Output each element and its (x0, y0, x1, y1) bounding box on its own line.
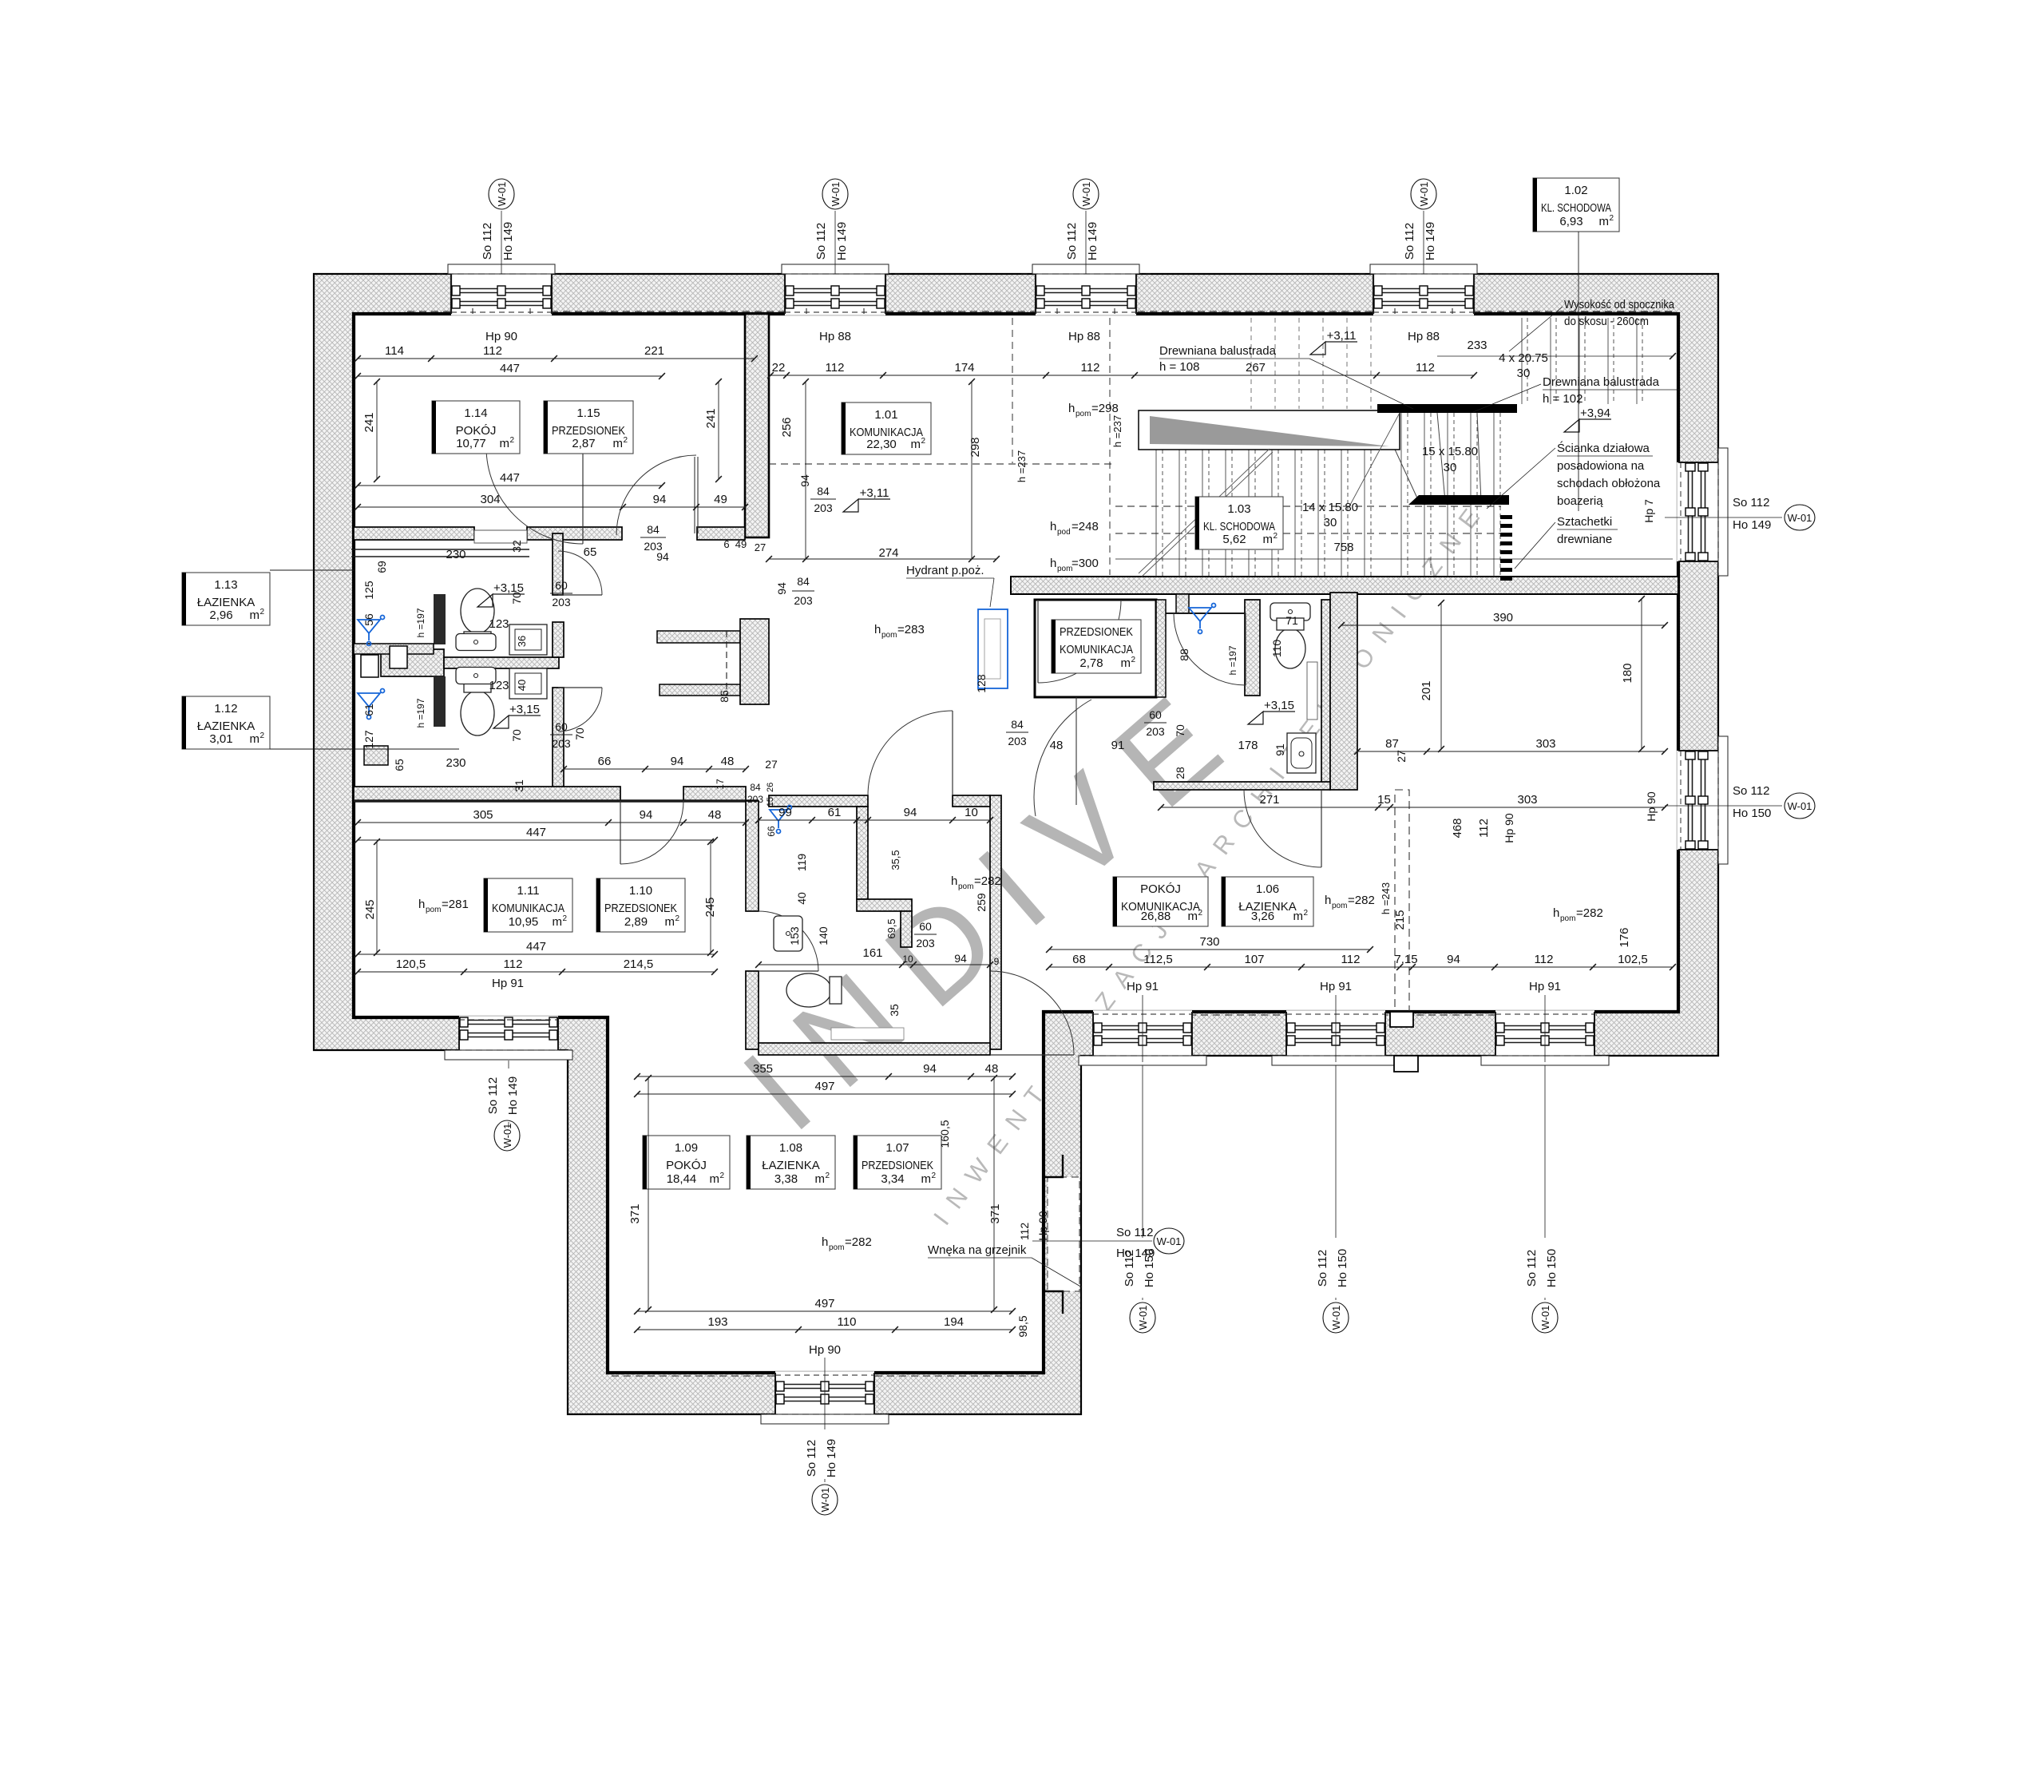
svg-text:=282: =282 (1348, 894, 1375, 907)
svg-text:230: 230 (446, 548, 465, 561)
svg-text:2: 2 (1273, 532, 1277, 541)
wing bottom dims (637, 1310, 1012, 1312)
dashed sill line bottom wall right (1093, 1014, 1597, 1016)
svg-text:447: 447 (526, 826, 546, 839)
svg-text:27: 27 (765, 758, 778, 771)
svg-text:2: 2 (1609, 214, 1614, 223)
central WC top wall right piece (953, 795, 990, 807)
svg-text:1.08: 1.08 (779, 1141, 802, 1155)
level mark corridor 3.11 (843, 499, 858, 512)
svg-text:70: 70 (1174, 724, 1186, 737)
svg-text:2: 2 (1303, 909, 1308, 918)
svg-text:5,62: 5,62 (1222, 533, 1246, 546)
svg-text:pom: pom (1075, 410, 1091, 418)
room box 1.10 PRZEDSIONEK (596, 878, 685, 932)
svg-text:2: 2 (675, 914, 679, 923)
svg-text:2,87: 2,87 (572, 437, 595, 450)
svg-text:221: 221 (644, 344, 664, 358)
svg-text:KOMUNIKACJA: KOMUNIKACJA (1060, 643, 1133, 656)
svg-text:h: h (418, 898, 425, 911)
svg-text:Hp 90: Hp 90 (485, 330, 517, 343)
svg-text:274: 274 (878, 546, 898, 560)
blue symbol bathroom 1.12 (358, 689, 385, 720)
svg-text:h: h (1068, 402, 1075, 415)
toilet central WC (786, 973, 842, 1007)
row 66 94 48 under bathrooms (564, 768, 746, 770)
svg-text:180: 180 (1621, 663, 1634, 683)
svg-text:3,01: 3,01 (209, 732, 232, 746)
door room 1.11 top wall (620, 801, 683, 864)
svg-text:40: 40 (795, 892, 808, 905)
svg-text:+3,15: +3,15 (493, 581, 524, 595)
svg-text:230: 230 (446, 756, 465, 770)
svg-text:pod: pod (1057, 528, 1071, 537)
svg-text:259: 259 (975, 893, 988, 912)
svg-text:Ho 149: Ho 149 (501, 222, 515, 260)
svg-text:65: 65 (393, 759, 406, 771)
svg-text:15 x 15.80: 15 x 15.80 (1422, 445, 1478, 458)
svg-text:193: 193 (707, 1315, 727, 1329)
svg-text:60: 60 (555, 720, 568, 733)
svg-text:70: 70 (573, 728, 586, 740)
svg-text:18,44: 18,44 (667, 1172, 697, 1186)
svg-text:98,5: 98,5 (1016, 1315, 1029, 1337)
svg-text:1.13: 1.13 (214, 578, 237, 592)
room box 1.15 PRZEDSIONEK (544, 401, 633, 454)
door corridor to wing (990, 971, 1074, 1055)
svg-text:So 112: So 112 (814, 223, 828, 260)
svg-text:107: 107 (1244, 953, 1264, 966)
svg-text:30: 30 (1324, 516, 1337, 529)
svg-text:pom: pom (829, 1243, 844, 1252)
svg-text:1.03: 1.03 (1227, 502, 1250, 516)
svg-text:112: 112 (826, 361, 845, 375)
svg-text:71: 71 (1285, 614, 1298, 627)
niche in wall 32 (474, 530, 527, 543)
shower room top wall (1166, 613, 1245, 614)
window bottom wall cx=637 (445, 1016, 572, 1060)
window top wall cx=628 (437, 264, 566, 315)
svg-text:203: 203 (916, 937, 935, 950)
svg-text:2: 2 (1198, 909, 1202, 918)
vertical dim line 298 corridor (971, 382, 972, 559)
svg-text:69,5: 69,5 (885, 918, 897, 938)
svg-text:+3,11: +3,11 (1327, 329, 1357, 343)
middle cluster bottom wall (1154, 782, 1330, 790)
level mark 3.94 (1564, 419, 1579, 432)
svg-text:So 112: So 112 (1733, 496, 1769, 509)
dashed sill line top wall (407, 311, 1674, 312)
level mark 3.11 stairs (1310, 342, 1325, 355)
svg-text:497: 497 (814, 1297, 834, 1310)
svg-text:60: 60 (555, 579, 568, 592)
staircase right flight treads (1522, 318, 1642, 404)
svg-text:94: 94 (653, 493, 667, 506)
svg-text:3,34: 3,34 (881, 1172, 904, 1186)
svg-text:94: 94 (923, 1062, 937, 1076)
window right wall cy=641 (1677, 448, 1728, 576)
window right wall cy=1002 (1677, 736, 1728, 864)
svg-text:86: 86 (718, 690, 731, 703)
svg-text:Ścianka działowa: Ścianka działowa (1557, 441, 1650, 455)
svg-text:1.02: 1.02 (1564, 184, 1587, 197)
svg-text:W-01: W-01 (1788, 800, 1812, 812)
leader line box 1.12 (270, 748, 459, 750)
svg-text:245: 245 (703, 897, 717, 917)
svg-text:203: 203 (552, 737, 571, 750)
svg-text:2: 2 (1131, 656, 1135, 664)
svg-text:3,26: 3,26 (1251, 910, 1274, 923)
svg-text:So 112: So 112 (1316, 1250, 1329, 1287)
room 1.11 right wall upper (746, 801, 759, 911)
svg-text:1.11: 1.11 (517, 884, 539, 898)
leader line box 1.13 (270, 569, 355, 571)
svg-text:6: 6 (723, 538, 729, 550)
svg-text:447: 447 (526, 940, 546, 953)
svg-text:m: m (665, 915, 675, 929)
svg-text:Hp 91: Hp 91 (1127, 980, 1159, 993)
svg-text:h =197: h =197 (415, 608, 426, 637)
svg-text:1.10: 1.10 (629, 884, 652, 898)
svg-text:POKÓJ: POKÓJ (1140, 882, 1181, 896)
svg-text:Ho 149: Ho 149 (1733, 518, 1771, 532)
svg-text:1.06: 1.06 (1256, 882, 1279, 896)
svg-text:153: 153 (788, 926, 801, 946)
blue symbol corridor left (770, 806, 792, 834)
svg-text:1.14: 1.14 (464, 406, 487, 420)
bathtub bathroom right (1287, 733, 1316, 773)
svg-text:447: 447 (500, 471, 520, 485)
room box 1.09 POKOJ (643, 1136, 730, 1189)
toilet bathroom 1.12 (461, 680, 494, 735)
svg-text:176: 176 (1618, 927, 1631, 947)
svg-text:112: 112 (483, 344, 502, 358)
room box 1.01 KOMUNIKACJA (842, 402, 931, 454)
svg-text:94: 94 (775, 582, 788, 595)
svg-text:447: 447 (500, 362, 520, 375)
staircase treads lower flight (1156, 450, 1371, 577)
svg-text:123: 123 (489, 617, 509, 631)
svg-text:pom: pom (1057, 565, 1072, 573)
svg-text:2: 2 (921, 437, 925, 446)
svg-text:35: 35 (888, 1004, 901, 1017)
svg-text:PRZEDSIONEK: PRZEDSIONEK (862, 1159, 933, 1172)
svg-text:70: 70 (510, 729, 523, 742)
svg-text:94: 94 (640, 808, 653, 822)
svg-text:W-01: W-01 (1330, 1306, 1342, 1330)
svg-text:10: 10 (902, 953, 913, 965)
svg-text:94: 94 (798, 474, 811, 487)
room box 1.12 LAZIENKA (182, 696, 270, 749)
svg-text:241: 241 (362, 412, 376, 432)
svg-text:256: 256 (780, 417, 794, 437)
svg-text:61: 61 (362, 704, 375, 716)
hydrant blue box (978, 609, 1008, 688)
svg-text:10,95: 10,95 (509, 915, 539, 929)
bathroom partition walls dark upper (434, 594, 446, 644)
svg-text:140: 140 (817, 926, 830, 946)
svg-text:119: 119 (795, 854, 808, 872)
svg-text:h: h (1050, 557, 1056, 570)
sink bathroom 1.12 (456, 668, 496, 684)
bathroom right wall lower (553, 688, 564, 788)
room box 1.07 PRZEDSIONEK (854, 1136, 941, 1189)
svg-text:=283: =283 (897, 623, 925, 636)
winder tread diagonals (1378, 413, 1419, 502)
toilet bathroom middle right (1275, 618, 1305, 668)
wing bottom window labels (824, 1358, 826, 1429)
svg-text:9: 9 (994, 956, 1000, 967)
wall between room 1.15 and corridor 1.01 (745, 314, 769, 537)
svg-text:112: 112 (1018, 1223, 1031, 1241)
dim row 114 112 221 (358, 358, 755, 359)
svg-text:m: m (500, 437, 510, 450)
svg-text:Hp 88: Hp 88 (1408, 330, 1440, 343)
svg-text:66: 66 (598, 755, 612, 768)
svg-text:KOMUNIKACJA: KOMUNIKACJA (492, 902, 564, 915)
central WC dims (759, 819, 990, 821)
svg-text:66: 66 (766, 826, 777, 837)
svg-text:30: 30 (1517, 367, 1531, 380)
bathroom 1.06 right wall (1321, 600, 1330, 783)
svg-text:15, 26: 15, 26 (766, 783, 775, 807)
svg-text:+3,94: +3,94 (1580, 406, 1610, 420)
dim row 447 top (358, 375, 662, 377)
svg-text:3,38: 3,38 (774, 1172, 798, 1186)
svg-text:h: h (1325, 894, 1331, 907)
svg-text:m: m (911, 438, 921, 451)
corridor dashed boundaries (1109, 318, 1111, 575)
stair upper flight ramp (1139, 410, 1400, 450)
svg-text:POKÓJ: POKÓJ (456, 424, 497, 438)
stair zone dashed lines (1115, 505, 1501, 507)
svg-text:4 x 20.75: 4 x 20.75 (1499, 351, 1548, 365)
leader line box 1.02 (1578, 232, 1579, 511)
svg-text:pom: pom (881, 631, 897, 640)
svg-text:48: 48 (721, 755, 735, 768)
svg-text:22: 22 (772, 361, 786, 375)
svg-text:Hp 91: Hp 91 (1320, 980, 1352, 993)
bathroom divider band 1.13/1.12 (381, 649, 444, 676)
svg-text:Hp 90: Hp 90 (1645, 791, 1658, 822)
svg-text:203: 203 (814, 502, 833, 514)
svg-text:48: 48 (1050, 739, 1064, 752)
svg-text:So 112: So 112 (1116, 1226, 1153, 1239)
thick edge under bathroom wall (354, 799, 759, 803)
svg-text:W-01: W-01 (1157, 1235, 1182, 1247)
svg-text:203: 203 (747, 794, 763, 805)
svg-text:m: m (250, 732, 260, 746)
svg-text:110: 110 (1270, 640, 1283, 658)
door cluster to room 26.88 (1244, 790, 1321, 867)
corridor 274 and hydrant (769, 558, 996, 560)
svg-text:h = 108: h = 108 (1159, 360, 1199, 374)
svg-text:56: 56 (362, 613, 375, 626)
svg-text:174: 174 (954, 361, 974, 375)
room box 1.13 LAZIENKA (182, 573, 270, 625)
svg-text:=281: =281 (442, 898, 469, 911)
bathroom 1.13 top wall (351, 549, 529, 550)
svg-text:112,5: 112,5 (1143, 953, 1172, 966)
svg-text:127: 127 (362, 730, 375, 749)
svg-text:h: h (1050, 520, 1056, 533)
svg-text:91: 91 (1274, 743, 1286, 756)
svg-text:112: 112 (504, 957, 523, 971)
svg-text:112: 112 (1477, 819, 1491, 838)
svg-text:6,93: 6,93 (1559, 215, 1583, 228)
door room 2.78 bottom leaf (1075, 697, 1077, 805)
svg-text:Hp 90: Hp 90 (1503, 813, 1515, 843)
svg-text:h =197: h =197 (1227, 645, 1238, 675)
svg-text:497: 497 (814, 1080, 834, 1093)
door central WC top (868, 711, 953, 795)
svg-text:W-01: W-01 (496, 182, 508, 207)
svg-text:161: 161 (862, 946, 882, 960)
svg-text:So 112: So 112 (1525, 1250, 1539, 1287)
svg-text:31: 31 (513, 779, 525, 792)
svg-text:2,89: 2,89 (624, 915, 648, 929)
svg-text:203: 203 (552, 596, 571, 609)
window top wall cx=1783 (1359, 264, 1488, 315)
svg-text:=248: =248 (1072, 520, 1099, 533)
svg-text:178: 178 (1238, 739, 1258, 752)
svg-text:=282: =282 (1576, 906, 1603, 920)
svg-text:28: 28 (1174, 767, 1186, 779)
svg-text:203: 203 (1146, 725, 1165, 738)
blue symbol shower room (1189, 604, 1216, 634)
balustrade bar lower (1408, 495, 1509, 505)
svg-text:1.12: 1.12 (214, 702, 237, 716)
svg-text:Hydrant p.poż.: Hydrant p.poż. (906, 564, 984, 577)
svg-text:128: 128 (975, 674, 988, 693)
svg-text:pom: pom (958, 882, 973, 891)
svg-text:1.15: 1.15 (576, 406, 600, 420)
svg-text:Wysokość od spocznika: Wysokość od spocznika (1564, 298, 1675, 311)
room 2.78 walls (1035, 600, 1156, 697)
svg-text:120,5: 120,5 (396, 957, 426, 971)
svg-text:m: m (1293, 910, 1304, 923)
svg-text:27: 27 (755, 541, 766, 553)
balustrade bar upper (1377, 404, 1517, 413)
svg-text:94: 94 (904, 806, 917, 819)
svg-text:W-01: W-01 (501, 1124, 513, 1148)
svg-text:=298: =298 (1091, 402, 1119, 415)
svg-text:203: 203 (1008, 735, 1027, 747)
svg-text:PRZEDSIONEK: PRZEDSIONEK (552, 424, 625, 438)
svg-text:m: m (1263, 533, 1274, 546)
svg-text:h =243: h =243 (1380, 882, 1392, 914)
svg-text:305: 305 (473, 808, 493, 822)
sink bathroom 1.13 (456, 634, 496, 651)
svg-text:758: 758 (1333, 541, 1353, 554)
svg-text:110: 110 (838, 1315, 857, 1329)
svg-text:91: 91 (1111, 739, 1125, 752)
dashed partition h243 in big room (1395, 790, 1409, 1012)
window bottom wall cx=1673 (1272, 1010, 1400, 1065)
svg-text:h =197: h =197 (415, 698, 426, 728)
svg-text:201: 201 (1420, 680, 1433, 700)
svg-text:241: 241 (704, 408, 718, 428)
svg-text:PRZEDSIONEK: PRZEDSIONEK (604, 902, 677, 915)
svg-text:94: 94 (1447, 953, 1460, 966)
room box 1.14 POKOJ (432, 401, 520, 454)
svg-text:drewniane: drewniane (1557, 533, 1612, 546)
step jog in bottom band near 7.15 (1390, 1012, 1413, 1027)
fixture 40 bathroom 1.12 (509, 668, 547, 699)
svg-text:Hp 90: Hp 90 (809, 1343, 841, 1357)
room 1.11 dims (358, 822, 746, 823)
door inside room 1.14 (486, 447, 583, 544)
svg-text:2,96: 2,96 (209, 609, 232, 622)
svg-text:35,5: 35,5 (889, 850, 901, 870)
svg-text:Sztachetki: Sztachetki (1557, 515, 1612, 529)
svg-text:88: 88 (1178, 648, 1190, 661)
svg-text:Ho 149: Ho 149 (825, 1439, 838, 1477)
svg-text:112: 112 (1535, 953, 1554, 966)
svg-text:W-01: W-01 (1539, 1306, 1551, 1330)
room box 1.11 KOMUNIKACJA (484, 878, 572, 932)
svg-text:Hp 7: Hp 7 (1642, 499, 1655, 523)
svg-text:So 112: So 112 (486, 1077, 500, 1114)
svg-text:m: m (613, 437, 624, 450)
svg-text:=300: =300 (1072, 557, 1099, 570)
svg-text:99: 99 (778, 806, 792, 819)
room box 1.02 KL SCHODOWA (1533, 178, 1619, 232)
stair flight direction lines (1139, 449, 1270, 573)
svg-text:203: 203 (794, 594, 813, 607)
svg-text:2: 2 (562, 914, 567, 923)
right room dims (1341, 624, 1665, 626)
svg-text:48: 48 (708, 808, 722, 822)
svg-text:102,5: 102,5 (1618, 953, 1648, 966)
svg-text:233: 233 (1467, 339, 1487, 352)
room box POKOJ KOMUNIKACJA 26.88 (1113, 877, 1208, 926)
svg-text:84: 84 (817, 485, 830, 498)
central WC top wall left piece (769, 795, 868, 807)
svg-text:160,5: 160,5 (938, 1120, 951, 1148)
niche walls right of bathrooms (657, 631, 740, 643)
svg-text:1.07: 1.07 (885, 1141, 909, 1155)
svg-text:Ho 150: Ho 150 (1336, 1249, 1349, 1287)
room box 1.08 LAZIENKA (747, 1136, 835, 1189)
svg-text:So 112: So 112 (481, 223, 494, 260)
svg-text:61: 61 (828, 806, 842, 819)
svg-text:2: 2 (509, 436, 514, 445)
room 1.11 right wall lower (746, 971, 759, 1049)
window bottom wall cx=1431 (1079, 1010, 1206, 1065)
svg-text:40: 40 (516, 680, 528, 691)
svg-text:2: 2 (623, 436, 628, 445)
svg-text:10: 10 (965, 806, 978, 819)
toilet bathroom 1.13 (461, 589, 494, 644)
svg-text:69: 69 (375, 561, 388, 573)
svg-text:125: 125 (362, 581, 375, 600)
central WC step wall vertical 2 (901, 911, 912, 947)
wing dims (637, 1076, 1012, 1077)
svg-text:214,5: 214,5 (624, 957, 654, 971)
svg-text:m: m (250, 609, 260, 622)
svg-text:PRZEDSIONEK: PRZEDSIONEK (1060, 625, 1133, 639)
svg-text:2,78: 2,78 (1079, 656, 1103, 670)
niche rect bathroom right (1307, 662, 1317, 720)
svg-text:do skosu - 260cm: do skosu - 260cm (1564, 315, 1649, 328)
svg-text:h: h (1553, 906, 1559, 920)
svg-text:30: 30 (1444, 461, 1457, 474)
svg-text:Hp 88: Hp 88 (819, 330, 851, 343)
svg-text:304: 304 (480, 493, 500, 506)
svg-text:15: 15 (1377, 793, 1391, 807)
svg-text:36: 36 (516, 636, 528, 647)
